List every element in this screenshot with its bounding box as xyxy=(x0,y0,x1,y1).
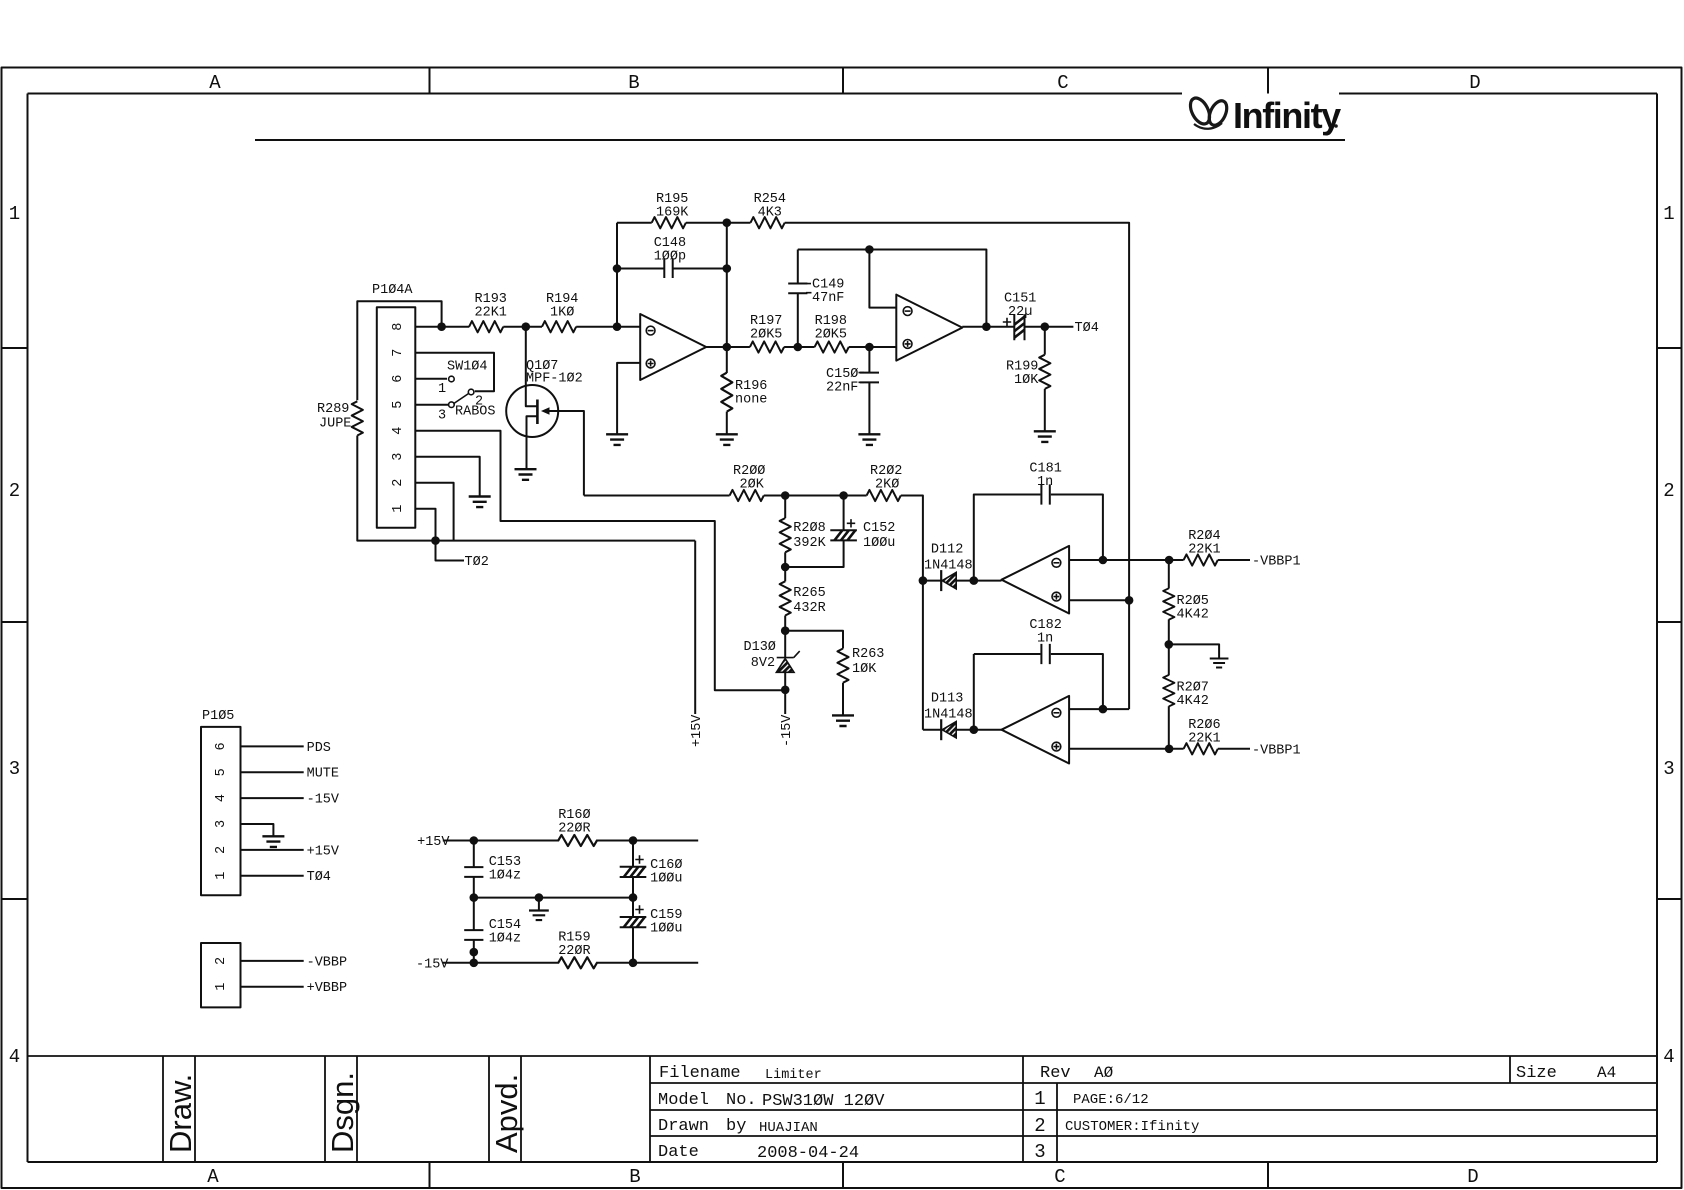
svg-text:RABOS: RABOS xyxy=(455,405,496,420)
wire R289 loop top xyxy=(357,301,441,400)
svg-text:B: B xyxy=(629,1166,640,1188)
svg-text:Dsgn.: Dsgn. xyxy=(325,1072,360,1153)
wire feedback top row op2 xyxy=(798,250,987,327)
svg-text:8V2: 8V2 xyxy=(751,656,775,671)
svg-text:2: 2 xyxy=(1663,480,1674,502)
svg-text:CUSTOMER:Ifinity: CUSTOMER:Ifinity xyxy=(1065,1119,1199,1135)
svg-text:47nF: 47nF xyxy=(812,291,844,306)
wire P105 pin6 PDS xyxy=(241,745,304,747)
wire C151 to T04 xyxy=(1025,326,1074,328)
capacitor C149 xyxy=(788,250,844,348)
ground Q107 source xyxy=(515,469,537,480)
svg-text:PDS: PDS xyxy=(307,741,331,756)
svg-text:TØ4: TØ4 xyxy=(1075,321,1099,336)
svg-text:B: B xyxy=(628,72,639,94)
svg-text:4K42: 4K42 xyxy=(1177,694,1209,709)
diode D130 zener 8V2 xyxy=(744,631,800,714)
svg-text:MUTE: MUTE xyxy=(307,767,339,782)
capacitor C150 xyxy=(826,347,879,434)
wire gate row to R200 xyxy=(584,495,730,497)
wire P105 pin3 to ground xyxy=(241,824,274,836)
svg-text:A: A xyxy=(209,72,221,94)
node R198/C150 xyxy=(865,343,874,352)
resistor R199 xyxy=(1006,327,1050,432)
resistor R194 xyxy=(542,292,578,332)
svg-text:6: 6 xyxy=(391,375,406,383)
svg-text:D: D xyxy=(1469,72,1480,94)
svg-text:P1Ø4A: P1Ø4A xyxy=(372,283,413,298)
svg-text:Draw.: Draw. xyxy=(163,1074,198,1153)
connector P104A xyxy=(372,283,415,528)
resistor R159 xyxy=(558,931,597,969)
wire R193-R194 xyxy=(503,326,542,328)
svg-text:1: 1 xyxy=(1034,1088,1045,1110)
svg-text:A: A xyxy=(207,1166,219,1188)
svg-text:1: 1 xyxy=(1663,203,1674,225)
svg-text:Apvd.: Apvd. xyxy=(489,1074,524,1153)
ground pin3 xyxy=(469,497,491,508)
wire +15V drop xyxy=(694,541,696,714)
svg-text:Filename: Filename xyxy=(659,1064,741,1083)
svg-text:R265: R265 xyxy=(793,586,825,601)
node C152 top xyxy=(839,491,848,500)
svg-text:3: 3 xyxy=(1663,758,1674,780)
node R197/R198/C149 xyxy=(794,343,803,352)
ground R205/R207 xyxy=(1210,659,1229,668)
svg-text:4: 4 xyxy=(391,427,406,435)
svg-text:4K42: 4K42 xyxy=(1177,608,1209,623)
title underline xyxy=(255,139,1345,141)
svg-text:1N4148: 1N4148 xyxy=(924,559,973,574)
node C182/U4 minus xyxy=(1099,705,1108,714)
svg-text:JUPE: JUPE xyxy=(319,417,351,432)
node D113 anode / U4 out xyxy=(970,725,979,734)
capacitor C148 xyxy=(617,236,727,278)
node C148 left xyxy=(613,264,622,273)
resistor R195 xyxy=(652,192,690,228)
svg-text:1N4148: 1N4148 xyxy=(924,708,973,723)
connector P105 xyxy=(201,709,241,895)
resistor R208 xyxy=(780,496,827,568)
resistor R265 xyxy=(780,567,826,631)
wire R289 bottom to +15V corner xyxy=(357,436,695,541)
resistor R193 xyxy=(469,292,507,332)
node C151/R199 xyxy=(1041,322,1050,331)
resistor R263 xyxy=(837,647,884,715)
svg-text:1ØØp: 1ØØp xyxy=(654,250,686,265)
svg-text:Infinity: Infinity xyxy=(1233,95,1341,136)
svg-text:D113: D113 xyxy=(931,692,963,707)
node R204/R205 xyxy=(1165,556,1174,565)
svg-text:3: 3 xyxy=(438,409,446,424)
svg-text:-15V: -15V xyxy=(307,793,340,808)
svg-text:22K1: 22K1 xyxy=(475,306,507,321)
svg-text:22ØR: 22ØR xyxy=(558,822,590,837)
node C148 right xyxy=(723,264,732,273)
wire R263 branch xyxy=(785,631,843,649)
resistor R197 xyxy=(750,314,784,353)
svg-text:22K1: 22K1 xyxy=(1188,732,1220,747)
wire pin5 to switch contact 3 xyxy=(415,404,448,406)
svg-text:1ØK: 1ØK xyxy=(852,662,877,677)
node ground stem xyxy=(535,893,544,902)
diode D112 1N4148 xyxy=(923,543,1002,592)
svg-text:6: 6 xyxy=(214,742,229,750)
wire +15V rail xyxy=(443,840,698,842)
svg-text:SW1Ø4: SW1Ø4 xyxy=(447,360,488,375)
svg-text:22µ: 22µ xyxy=(1008,305,1032,320)
connector P106 xyxy=(201,943,241,1007)
svg-text:+15V: +15V xyxy=(307,844,340,859)
node D112 anode / U3 out xyxy=(970,576,979,585)
op-amp U1 xyxy=(640,314,706,380)
svg-text:4: 4 xyxy=(214,794,229,802)
svg-text:3: 3 xyxy=(214,820,229,828)
node inverting input xyxy=(613,322,622,331)
ground R196 xyxy=(716,434,738,445)
svg-text:432R: 432R xyxy=(793,601,825,616)
resistor R205 xyxy=(1163,560,1209,644)
ground op1 xyxy=(606,434,628,445)
svg-text:4K3: 4K3 xyxy=(758,206,782,221)
wire ground stem xyxy=(538,898,540,911)
wire R202 to diodes vertical xyxy=(901,496,923,730)
wire pin2 xyxy=(415,483,453,541)
node R159/C159 xyxy=(629,959,638,968)
svg-text:A4: A4 xyxy=(1597,1064,1616,1082)
svg-text:1: 1 xyxy=(391,505,406,513)
capacitor C152 xyxy=(785,496,895,568)
svg-text:R2Ø8: R2Ø8 xyxy=(793,521,825,536)
wire P105 pin5 MUTE xyxy=(241,771,304,773)
svg-text:2: 2 xyxy=(1034,1115,1045,1137)
svg-text:+15V: +15V xyxy=(417,835,450,850)
svg-text:Size: Size xyxy=(1516,1064,1557,1083)
svg-text:AØ: AØ xyxy=(1094,1064,1114,1082)
wire P105 pin1 T04 xyxy=(241,875,304,877)
op-amp U4 xyxy=(1002,696,1070,764)
svg-text:TØ2: TØ2 xyxy=(465,555,489,570)
resistor R254 xyxy=(751,192,787,228)
resistor R289 xyxy=(317,401,363,435)
svg-text:-VBBP1: -VBBP1 xyxy=(1252,555,1301,570)
op-amp U3 xyxy=(1002,546,1070,614)
node +15V/C153 xyxy=(470,836,479,845)
svg-text:1ØØu: 1ØØu xyxy=(650,872,682,887)
resistor R202 xyxy=(867,464,903,501)
svg-text:TØ4: TØ4 xyxy=(307,870,331,885)
switch SW104 xyxy=(438,360,496,424)
wire U3 inverting row xyxy=(1069,559,1184,561)
node C181/U3 minus xyxy=(1099,556,1108,565)
wire mid ground row xyxy=(474,897,633,899)
wire P106 pin1 +VBBP xyxy=(241,986,304,988)
zone numbers right xyxy=(1663,203,1674,1068)
Infinity logo xyxy=(1187,95,1342,136)
node op2 out xyxy=(982,322,991,331)
svg-text:169K: 169K xyxy=(656,206,689,221)
node C154 lead xyxy=(470,948,479,957)
svg-text:2: 2 xyxy=(214,846,229,854)
svg-text:R289: R289 xyxy=(317,402,349,417)
svg-text:22nF: 22nF xyxy=(826,381,858,396)
svg-text:1n: 1n xyxy=(1037,475,1053,490)
node T02 junction xyxy=(431,536,440,545)
wire P105 pin2 +15V xyxy=(241,849,304,851)
svg-text:4: 4 xyxy=(1663,1046,1674,1068)
svg-text:Rev: Rev xyxy=(1040,1064,1071,1083)
ground mid rail xyxy=(529,911,549,921)
svg-text:-15V: -15V xyxy=(780,714,795,747)
wire U4 inverting row xyxy=(1069,708,1129,710)
svg-text:3: 3 xyxy=(1034,1141,1045,1163)
svg-text:2ØK5: 2ØK5 xyxy=(815,328,847,343)
zone numbers left xyxy=(9,203,20,1068)
node R265/R263/D130 xyxy=(781,626,790,635)
ground C150 xyxy=(858,434,880,445)
svg-text:+VBBP: +VBBP xyxy=(307,981,348,996)
svg-text:2ØK: 2ØK xyxy=(740,478,765,493)
node R208/C152/R265 xyxy=(781,563,790,572)
wire -15V rail xyxy=(443,962,698,964)
svg-text:1ØØu: 1ØØu xyxy=(650,922,682,937)
wire U3 non-inverting row xyxy=(1069,599,1129,601)
svg-text:Drawn: Drawn xyxy=(658,1117,709,1136)
svg-text:8: 8 xyxy=(391,323,406,331)
node C153/C154 xyxy=(470,893,479,902)
svg-text:Date: Date xyxy=(658,1143,699,1162)
wire pin1 to T02 xyxy=(415,509,464,561)
zone letters bottom xyxy=(207,1166,1478,1188)
wire R195 row xyxy=(617,223,1129,709)
node R207/R206 xyxy=(1165,745,1174,754)
svg-text:1ØK: 1ØK xyxy=(1014,373,1039,388)
svg-text:2KØ: 2KØ xyxy=(875,478,899,493)
capacitor C153 xyxy=(464,841,521,898)
svg-text:PAGE:6/12: PAGE:6/12 xyxy=(1073,1092,1149,1108)
svg-text:4: 4 xyxy=(9,1046,20,1068)
svg-text:R263: R263 xyxy=(852,647,884,662)
node R200/R208 xyxy=(781,491,790,500)
svg-text:none: none xyxy=(735,393,767,408)
node C154/-15V rail xyxy=(470,959,479,968)
svg-text:392K: 392K xyxy=(793,536,826,551)
wire U4 non-inverting row xyxy=(1069,748,1184,750)
resistor R198 xyxy=(815,314,849,353)
node U3 plus / R254 net xyxy=(1125,596,1134,605)
capacitor C160 xyxy=(620,841,683,898)
svg-text:No.: No. xyxy=(726,1091,757,1110)
svg-text:-VBBP1: -VBBP1 xyxy=(1252,743,1301,758)
resistor R160 xyxy=(558,808,597,846)
svg-text:1ØØu: 1ØØu xyxy=(863,536,895,551)
wire R194 to op-amp U1 inverting input xyxy=(576,326,640,328)
wire op2 output xyxy=(962,326,1014,328)
wire mid to ground xyxy=(1169,644,1219,658)
node R205/R207/ground xyxy=(1165,640,1174,649)
ground R199 xyxy=(1034,431,1056,442)
svg-text:D13Ø: D13Ø xyxy=(744,640,776,655)
node feedback/minus branch xyxy=(865,245,874,254)
svg-text:+15V: +15V xyxy=(690,714,705,747)
svg-text:1KØ: 1KØ xyxy=(550,306,574,321)
svg-text:5: 5 xyxy=(214,768,229,776)
capacitor C159 xyxy=(620,898,683,963)
capacitor C151 xyxy=(1003,292,1037,341)
svg-text:2: 2 xyxy=(391,479,406,487)
diode D113 1N4148 xyxy=(923,692,1002,741)
svg-text:-15V: -15V xyxy=(416,957,449,972)
node D130 anode xyxy=(781,686,790,695)
svg-text:1n: 1n xyxy=(1037,632,1053,647)
svg-text:2ØK5: 2ØK5 xyxy=(750,328,782,343)
resistor R207 xyxy=(1163,644,1209,748)
svg-text:3: 3 xyxy=(391,453,406,461)
wire R196 to ground xyxy=(726,412,728,435)
wire pin3 xyxy=(415,457,479,497)
svg-text:2: 2 xyxy=(214,957,229,965)
svg-text:by: by xyxy=(726,1117,746,1136)
node D112 cathode xyxy=(919,576,928,585)
zone letters top xyxy=(209,72,1480,94)
svg-text:Limiter: Limiter xyxy=(765,1068,822,1083)
svg-text:1: 1 xyxy=(214,983,229,991)
node pin8 junction xyxy=(437,322,446,331)
svg-text:C152: C152 xyxy=(863,521,895,536)
node R195/R254 xyxy=(723,218,732,227)
resistor R206 xyxy=(1184,718,1250,754)
svg-text:2: 2 xyxy=(9,480,20,502)
svg-text:D: D xyxy=(1467,1166,1478,1188)
svg-text:Model: Model xyxy=(658,1091,709,1110)
wire R200 to R202 xyxy=(764,495,867,497)
node R193/R194/Q107 xyxy=(522,322,531,331)
svg-text:HUAJIAN: HUAJIAN xyxy=(759,1120,818,1136)
resistor R196 xyxy=(721,373,767,412)
node C160/C159 xyxy=(629,893,638,902)
ground R263 xyxy=(832,715,854,726)
svg-text:1Ø4z: 1Ø4z xyxy=(489,932,521,947)
wire feedback left vertical xyxy=(616,223,618,327)
node R160/C160 xyxy=(629,836,638,845)
op-amp U2 xyxy=(896,295,962,361)
svg-text:D112: D112 xyxy=(931,543,963,558)
wire pin8 row xyxy=(415,326,469,328)
resistor R200 xyxy=(730,464,766,501)
capacitor C181 xyxy=(974,462,1103,581)
capacitor C154 xyxy=(464,898,521,963)
svg-text:22K1: 22K1 xyxy=(1188,543,1220,558)
resistor R204 xyxy=(1184,529,1250,566)
svg-text:C: C xyxy=(1054,1166,1065,1188)
wire pin7 to switch contact 2 xyxy=(415,353,494,392)
wire P105 pin4 -15V xyxy=(241,797,304,799)
wire P106 pin2 -VBBP xyxy=(241,960,304,962)
title block xyxy=(28,1056,1658,1162)
svg-text:1Ø4z: 1Ø4z xyxy=(489,869,521,884)
svg-text:1: 1 xyxy=(214,872,229,880)
wire op2 inverting input xyxy=(869,250,896,308)
svg-text:PSW31ØW 12ØV: PSW31ØW 12ØV xyxy=(762,1092,885,1111)
transistor Q107 MPF-102 xyxy=(506,327,584,496)
svg-text:22ØR: 22ØR xyxy=(558,944,590,959)
svg-text:7: 7 xyxy=(391,349,406,357)
svg-text:1: 1 xyxy=(9,203,20,225)
capacitor C182 xyxy=(974,618,1103,730)
svg-text:P1Ø5: P1Ø5 xyxy=(202,709,234,724)
node op1 out xyxy=(723,343,732,352)
svg-text:2008-04-24: 2008-04-24 xyxy=(757,1144,859,1163)
svg-text:1: 1 xyxy=(438,382,446,397)
svg-text:C: C xyxy=(1057,72,1068,94)
svg-text:3: 3 xyxy=(9,758,20,780)
wire output vertical xyxy=(726,223,728,373)
wire pin4 to D130 anode xyxy=(415,431,785,691)
wire pin6 to switch contact 1 xyxy=(415,378,447,380)
ground P105 pin3 xyxy=(262,836,284,847)
svg-text:-VBBP: -VBBP xyxy=(307,955,348,970)
wire op1 non-inverting to ground xyxy=(617,363,640,434)
svg-text:5: 5 xyxy=(391,401,406,409)
wire op1 output row xyxy=(706,346,896,348)
